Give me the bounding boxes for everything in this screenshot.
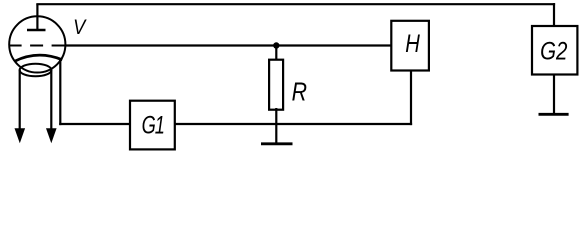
- cathode arc: [15, 55, 63, 61]
- tube V envelope: [9, 16, 65, 72]
- wire: resistor top lead: [275, 46, 277, 61]
- wire: H bottom lead: [410, 71, 412, 126]
- wire: resistor bottom lead: [275, 108, 277, 144]
- wire: cathode lead: [59, 60, 61, 125]
- svg-text:H: H: [405, 29, 420, 58]
- ground of G2: [539, 113, 569, 116]
- junction node dot: [273, 42, 279, 48]
- wire: G2 bottom lead: [553, 75, 555, 115]
- heater lead right with arrow: [46, 70, 57, 144]
- wire: grid to H: [65, 44, 391, 46]
- resistor R body: [269, 60, 283, 110]
- svg-text:G1: G1: [142, 110, 164, 139]
- box G1: [130, 101, 175, 150]
- wire: top rail to G2: [36, 3, 555, 5]
- heater lead left with arrow: [15, 70, 26, 144]
- wire: G2 top lead: [553, 3, 555, 26]
- svg-text:V: V: [73, 16, 87, 39]
- svg-text:R: R: [292, 78, 307, 108]
- box H: [391, 21, 429, 71]
- svg-text:G2: G2: [540, 37, 568, 65]
- anode plate of tube V: [27, 29, 46, 32]
- ground of resistor R: [261, 142, 293, 145]
- heater ellipse: [20, 64, 52, 77]
- grid electrode (dashed): [9, 45, 66, 47]
- wire: anode lead: [36, 4, 38, 30]
- box G2: [532, 26, 577, 75]
- wire: bottom rail: [59, 123, 412, 125]
